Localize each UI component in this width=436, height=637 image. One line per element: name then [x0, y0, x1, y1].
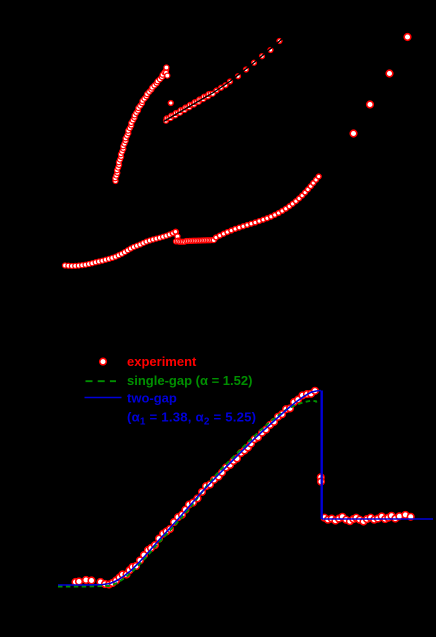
top panel: lower branch 1 data points	[63, 229, 179, 268]
svg-text:single-gap (α = 1.52): single-gap (α = 1.52)	[127, 373, 252, 388]
bottom panel: two-gap fit right plateau	[322, 518, 433, 520]
legend: single-gap dashed line sample	[86, 380, 117, 382]
bottom panel: single-gap dashed fit curve	[58, 401, 317, 587]
top panel: diagonal branch dense data points	[164, 91, 216, 123]
svg-text:two-gap: two-gap	[127, 391, 177, 406]
bottom panel: two-gap fit curve ramp	[58, 391, 321, 586]
legend: experiment marker	[100, 358, 107, 365]
top panel: lower branch 2 spaced data points	[214, 174, 322, 240]
svg-text:experiment: experiment	[127, 354, 197, 369]
top panel: diagonal branch spaced data points	[214, 39, 282, 93]
top panel: lower branch 2 dense data points	[174, 238, 217, 245]
legend: two-gap line sample	[85, 397, 122, 399]
top panel: isolated high-temperature points	[350, 34, 411, 137]
top panel: isolated point between branches	[168, 101, 173, 106]
bottom panel: two-gap fit vertical drop at Tc	[321, 391, 323, 520]
top panel: transition points	[175, 234, 181, 243]
top panel: lower branch 1 end cluster	[170, 229, 178, 235]
bottom panel: experiment data points on vertical drop	[318, 474, 325, 485]
bottom panel: experiment data points flat left	[72, 577, 119, 588]
top panel: black fit line through diagonal branch	[164, 38, 284, 121]
bottom panel: experiment data points on ramp	[116, 388, 318, 581]
bottom panel: experiment data points right plateau	[321, 512, 414, 525]
top panel: steep branch data points	[113, 65, 170, 184]
